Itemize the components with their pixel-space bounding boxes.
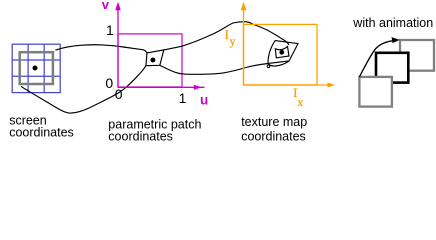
svg-text:1: 1 (106, 22, 114, 38)
svg-text:0: 0 (105, 75, 113, 91)
gray window square on grid (20, 52, 53, 84)
wire: lower curve parametric->texture (160, 64, 268, 75)
parametric patch quad (146, 50, 164, 66)
svg-text:u: u (200, 92, 208, 107)
texture dot (279, 50, 284, 55)
texture fold curve (268, 61, 289, 66)
animation square lower-left (gray) (359, 77, 392, 107)
parametric unit square (magenta) (118, 34, 182, 87)
animation square middle (black) (376, 53, 408, 83)
texture inner quad (275, 46, 289, 58)
u axis (118, 85, 205, 90)
animation arrow (359, 41, 394, 77)
svg-text:0: 0 (115, 86, 123, 102)
parametric patch dot (150, 58, 155, 63)
screen coordinate grid (blue 3x3) (12, 44, 60, 92)
svg-text:x: x (297, 97, 303, 109)
wire: lower curve screen->parametric (21, 66, 146, 113)
svg-text:coordinates: coordinates (241, 130, 306, 144)
wire: upper curve parametric->texture (164, 22, 289, 50)
svg-text:I: I (225, 27, 229, 42)
animation square upper-right (gray) (400, 40, 434, 71)
texture Iy axis (241, 2, 247, 85)
knot at kite tip (267, 65, 270, 68)
texture Ix axis (244, 82, 335, 87)
svg-text:coordinates: coordinates (108, 130, 173, 144)
svg-text:1: 1 (179, 90, 187, 106)
svg-text:with animation: with animation (352, 16, 433, 30)
texture outer kite quad (268, 41, 298, 64)
texture map box (orange) (244, 24, 318, 85)
screen sample dot (33, 66, 38, 71)
svg-text:texture map: texture map (241, 115, 307, 129)
svg-text:coordinates: coordinates (9, 126, 74, 140)
svg-text:v: v (102, 0, 110, 12)
svg-text:y: y (230, 34, 236, 48)
wire: upper curve screen->parametric (55, 45, 147, 53)
v axis (115, 2, 121, 87)
